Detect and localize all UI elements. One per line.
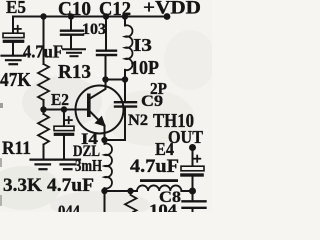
svg-text:4.7uF: 4.7uF: [47, 175, 94, 196]
wire R13 top lead: [43, 17, 45, 65]
svg-text:103: 103: [82, 21, 106, 38]
svg-text:47K: 47K: [0, 69, 31, 91]
wire E2 cap lead: [63, 110, 65, 127]
wire E2 to ground: [63, 136, 65, 159]
node dot base R13: [40, 106, 46, 112]
svg-text:10P: 10P: [130, 57, 159, 79]
node dot B left: [102, 76, 108, 82]
svg-text:N2: N2: [128, 112, 148, 129]
svg-text:R13: R13: [58, 61, 91, 83]
wire C9 bottom lead: [105, 108, 126, 141]
capacitor C9 plates: [115, 102, 136, 106]
wire E5 branch lead: [12, 17, 14, 34]
wire C12 top lead: [105, 17, 107, 51]
wire R11 top lead: [43, 110, 45, 115]
wire C9 top lead: [124, 80, 126, 102]
wire node B horizontal: [106, 79, 126, 81]
node dot OUT terminal: [189, 144, 196, 151]
node dot rail I3: [122, 13, 128, 19]
capacitor E2 bottom plate: [54, 133, 74, 136]
wire top VDD rail: [13, 16, 167, 18]
transistor Q1 emitter arrow: [95, 117, 105, 126]
capacitor E4 plus sign: [194, 156, 200, 162]
ground below C10: [63, 49, 85, 56]
wire C8 bottom lead: [192, 209, 194, 213]
resistor bottom zigzag: [125, 191, 137, 212]
capacitor E2 top plate: [54, 126, 74, 130]
node dot rail C12: [103, 13, 109, 19]
capacitor E4 bottom plate: [181, 174, 204, 177]
inductor L5 horizontal coil: [137, 185, 181, 191]
wire C10 lead: [70, 17, 72, 31]
wire R11 bottom lead: [43, 145, 45, 160]
node dot rail R13: [40, 13, 46, 19]
svg-text:3mH: 3mH: [75, 156, 102, 175]
wire base: [44, 109, 88, 111]
svg-text:+VDD: +VDD: [143, 0, 201, 19]
capacitor E4 top plate: [181, 166, 204, 171]
wire E5 to ground: [12, 43, 14, 55]
node dot I4 bottom: [101, 188, 107, 194]
svg-text:4.7uF: 4.7uF: [130, 156, 179, 177]
wire I4 bottom lead: [104, 188, 106, 191]
wire I3 top lead: [124, 17, 126, 26]
capacitor E5 top plate: [3, 33, 24, 37]
capacitor C12 plates: [97, 51, 116, 55]
transistor Q1 base bar: [87, 94, 91, 118]
ground below R11: [31, 160, 55, 170]
wire bottom horizontal: [105, 190, 138, 192]
svg-text:C10: C10: [58, 0, 91, 20]
transistor Q1 emitter line: [91, 112, 105, 126]
node dot B right: [122, 76, 128, 82]
svg-text:C12: C12: [99, 0, 131, 20]
wire R13 bottom lead: [43, 100, 45, 110]
capacitor C10 plates: [61, 31, 83, 35]
scan noise blobs: [0, 30, 216, 219]
ground below E5: [2, 56, 26, 64]
svg-text:104: 104: [149, 202, 177, 212]
wire C10 to ground: [70, 36, 72, 49]
resistor R11 zigzag: [38, 114, 49, 145]
ground below E2: [56, 160, 80, 170]
svg-text:3.3K: 3.3K: [3, 175, 42, 196]
svg-text:R11: R11: [2, 138, 31, 159]
svg-text:044: 044: [58, 203, 80, 212]
wire emitter lead: [104, 126, 106, 141]
svg-text:E2: E2: [51, 90, 69, 109]
capacitor C8 plates: [183, 201, 206, 208]
resistor R13 zigzag: [38, 64, 49, 100]
inductor I4 coil: [105, 144, 112, 189]
inductor I3 coil: [125, 25, 132, 70]
wire down from I4 node: [104, 191, 106, 212]
inductor L5 core bar: [140, 179, 178, 182]
node dot rail C10: [68, 13, 74, 19]
node dot bottom right: [189, 188, 196, 195]
capacitor E5 bottom plate: [3, 40, 24, 43]
wire emitter to I4: [104, 140, 106, 144]
node dot VDD terminal: [164, 13, 171, 20]
node dot base E2: [61, 106, 67, 112]
transistor Q1 circle: [76, 86, 124, 134]
wire I3 bottom lead: [124, 70, 126, 80]
svg-text:4.7uF: 4.7uF: [23, 42, 63, 62]
svg-text:E5: E5: [6, 0, 26, 17]
node dot bottom resistor: [127, 188, 133, 194]
wire C12 bottom lead: [105, 56, 107, 80]
node dot emitter: [101, 137, 107, 143]
wire coil to right node: [181, 190, 192, 192]
wire E4 to bottom node: [192, 176, 194, 191]
wire collector lead: [90, 80, 106, 99]
wire C8 top lead: [192, 191, 194, 201]
capacitor E5 plus sign: [15, 26, 21, 32]
wire OUT to E4: [192, 149, 194, 166]
svg-text:I3: I3: [133, 35, 152, 55]
capacitor E2 plus sign: [66, 117, 72, 123]
svg-text:C9: C9: [141, 93, 163, 110]
